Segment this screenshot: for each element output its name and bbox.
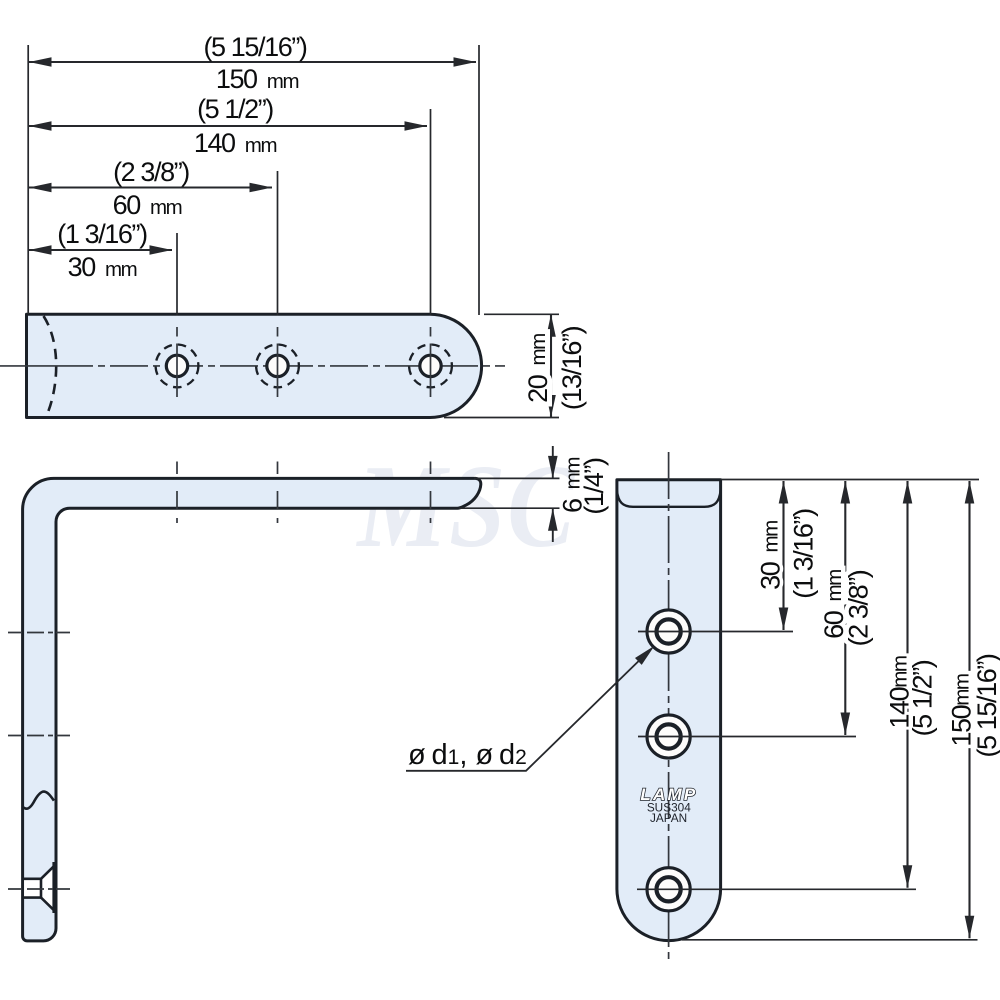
- svg-text:JAPAN: JAPAN: [650, 811, 687, 825]
- svg-text:ø d1, ø d2: ø d1, ø d2: [408, 739, 527, 771]
- svg-text:(5 15/16”): (5 15/16”): [972, 654, 1000, 757]
- svg-text:(2 3/8”): (2 3/8”): [113, 157, 189, 187]
- svg-text:20 mm: 20 mm: [523, 334, 553, 403]
- svg-text:(1 3/16”): (1 3/16”): [789, 509, 819, 599]
- svg-text:(2 3/8”): (2 3/8”): [844, 570, 874, 646]
- svg-text:(5 15/16”): (5 15/16”): [203, 32, 306, 62]
- svg-text:(13/16”): (13/16”): [557, 326, 587, 410]
- svg-text:(5 1/2”): (5 1/2”): [197, 94, 273, 124]
- svg-text:30 mm: 30 mm: [756, 521, 786, 590]
- svg-text:(1 3/16”): (1 3/16”): [57, 219, 147, 249]
- svg-text:(1/4”): (1/4”): [579, 458, 609, 515]
- svg-text:(5 1/2”): (5 1/2”): [908, 660, 938, 736]
